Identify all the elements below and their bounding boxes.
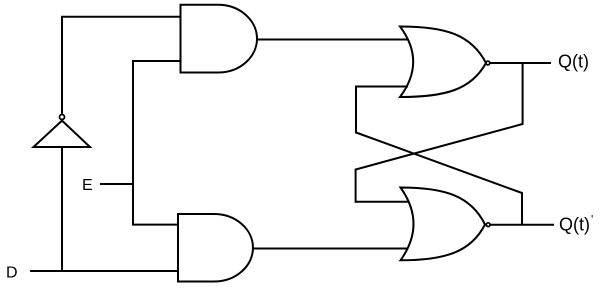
inverter U1 bubble <box>60 115 65 120</box>
nor-gate G1 body <box>400 27 486 98</box>
wire feedback Q to G2 input 1 <box>356 63 523 202</box>
nor-gate G2 bubble <box>486 223 490 227</box>
and-gate A1 <box>181 5 258 73</box>
svg-text:Q(t)': Q(t)' <box>559 213 593 235</box>
svg-text:D: D <box>6 265 18 282</box>
wire inverter input from D line <box>61 147 63 271</box>
wire E vertical bus <box>133 61 181 225</box>
wire D input <box>30 270 178 272</box>
and-gate A2 <box>178 214 253 282</box>
wire feedback Q' to G1 input 2 <box>356 87 522 225</box>
wire top from inverter output to AND A1 input 1 <box>62 17 181 114</box>
wire E input stub <box>100 183 133 185</box>
wire A1 output to NOR G1 input 1 <box>256 39 408 41</box>
wire G2 output to Q(t)' <box>491 224 554 226</box>
svg-text:E: E <box>82 177 93 194</box>
inverter U1 triangle <box>34 121 91 147</box>
svg-text:Q(t): Q(t) <box>558 52 589 72</box>
nor-gate G2 body <box>401 188 486 261</box>
nor-gate G1 bubble <box>486 61 490 65</box>
wire A2 output to NOR G2 input 2 <box>252 248 408 250</box>
wire G1 output to Q(t) <box>490 62 551 64</box>
